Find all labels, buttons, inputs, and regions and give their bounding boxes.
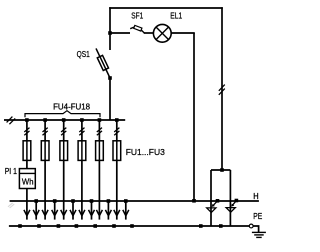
wire PE bus [9,225,249,227]
node junction SF1 branch [108,31,112,35]
node N tap 3 [71,199,75,203]
svg-text:PI 1: PI 1 [5,166,18,176]
wire left vertical to SF1/QS1 [109,7,111,50]
wire PE to ground [253,226,258,232]
node bus tap 2 [43,118,47,122]
node N tap 1 [34,199,38,203]
node bus tap 1 [25,118,29,122]
terminal circle PE end [249,224,253,228]
wire SF1 to lamp [144,32,154,34]
svg-text:EL1: EL1 [170,10,182,20]
node arrester 2 on N [235,199,239,203]
surge arrester FV2 [226,170,236,226]
node PE 5 [93,224,97,228]
wire N bus [10,200,259,202]
fuse FU (6th column) [113,141,121,161]
svg-text:SF1: SF1 [131,10,143,20]
fuse FU (1st column) [23,141,31,161]
ground [252,232,266,237]
node N tap 5 [107,199,111,203]
wire SF1 left [110,32,130,34]
break mark faint N left [8,203,14,208]
wire feeder 2 [44,120,46,220]
wire N drop 3 [72,201,74,220]
fuse FU (5th column) [96,141,104,161]
break mark on right vertical [219,85,225,95]
lamp EL1 [153,24,171,42]
svg-text:PE: PE [253,211,262,221]
wire N drop 5 [107,201,109,220]
wire distribution bus [4,119,125,121]
node bus tap 4 [80,118,84,122]
node bus tap 6 [115,118,119,122]
surge arrester FV1 [207,170,218,226]
node PE 6 [112,224,116,228]
breaker SF1 [130,25,144,33]
wire QS1 to bus [109,78,111,120]
wire feeder 5 [98,120,100,220]
fuse FU (4th column) [78,141,86,161]
meter PI1 box [19,169,35,189]
svg-text:FU1...FU3: FU1...FU3 [126,147,165,157]
node N tap 2 [53,199,57,203]
feeder arrows [24,210,129,216]
wire N drop 1 [35,201,37,220]
node PE 9 [219,224,223,228]
node N tap 6 [124,199,128,203]
wire N drop 2 [54,201,56,220]
wire N drop 6 [125,201,127,220]
svg-text:Wh: Wh [22,177,34,187]
fuse-switch QS1 [96,48,110,78]
node PE 7 [130,224,134,228]
node bus tap 3 [62,118,66,122]
wire feeder 6 [116,120,118,220]
wire N drop 4 [91,201,93,220]
node PE 1 [18,224,22,228]
fuse FU (3rd column) [60,141,68,161]
wire vertical lamp return [193,33,195,201]
svg-text:QS1: QS1 [77,49,90,59]
wire arrester bar [211,169,230,171]
node lamp return on N [192,199,196,203]
svg-text:H: H [253,191,258,201]
wire feeder 1 upper [26,120,28,169]
wire lamp to right drop [171,32,195,34]
break marks on feeders [24,128,119,136]
node arrester bar [220,168,224,172]
node N tap 4 [90,199,94,203]
node arrester 1 on N [216,199,220,203]
wire feeder 4 [81,120,83,220]
svg-text:FU4-FU18: FU4-FU18 [53,101,90,111]
node PE 4 [75,224,79,228]
break mark bus left end [7,117,16,125]
bracket under label [25,111,100,118]
fuse FU (2nd column) [41,141,49,161]
node PE 8 [199,224,203,228]
wire right vertical from top [221,7,223,170]
node bus tap 5 [98,118,102,122]
node PE 3 [57,224,61,228]
wire feeder 1 lower [26,189,28,220]
node QS1 bottom [108,76,112,80]
wire top horizontal [109,7,223,9]
wire feeder 3 [63,120,65,220]
node PE 2 [37,224,41,228]
